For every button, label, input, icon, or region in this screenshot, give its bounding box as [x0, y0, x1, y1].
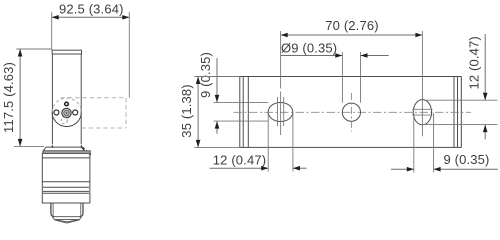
- right slot ellipse: [413, 100, 431, 125]
- dim dia9 leader: [281, 55, 342, 57]
- dim dia9 arrow left-pointing: [361, 53, 368, 58]
- base gray bar: [43, 151, 90, 153]
- left slot side line b: [283, 97, 285, 126]
- base line 5: [43, 192, 89, 194]
- dim 9 bottom line left: [391, 168, 414, 170]
- right slot centerline: [421, 100, 423, 137]
- dim 12 right line lower: [484, 125, 486, 140]
- dome upper: [52, 217, 81, 220]
- dim 9 bottom tail: [434, 168, 498, 170]
- dim 35 line: [197, 77, 199, 148]
- dim 9 left line upper: [216, 58, 218, 102]
- dim 9 left extension top: [214, 101, 269, 103]
- svg-text:117.5 (4.63): 117.5 (4.63): [1, 62, 16, 133]
- middle hole: [342, 103, 360, 121]
- left slot ellipse: [268, 103, 293, 122]
- connector inner line left: [52, 203, 54, 217]
- plate outline: [240, 77, 461, 148]
- dim 117.5 arrow up: [18, 49, 23, 57]
- device column left side: [51, 54, 53, 144]
- dim 92.5 line: [52, 16, 130, 18]
- device column right side: [80, 54, 82, 144]
- dim 70 arrow right: [415, 33, 422, 38]
- dim 70 extension left: [280, 31, 282, 89]
- hidden arm dashed right: [125, 98, 127, 128]
- dim 12 right line upper: [484, 34, 486, 100]
- flange hidden screw dashed: [61, 118, 67, 124]
- dim 70 arrow left: [281, 33, 288, 38]
- dim 70 line: [281, 34, 423, 36]
- dim 12 bottom line left: [210, 167, 269, 169]
- dim 12 bottom extension b: [292, 113, 294, 172]
- left slot centerline: [280, 92, 282, 136]
- dim 12 bottom tail: [293, 167, 307, 169]
- column base wedge right: [80, 145, 83, 148]
- dim 35 arrow up: [196, 77, 201, 85]
- dim 92.5 arrow left: [52, 15, 59, 20]
- dim 9 bottom arrow left-pointing: [434, 167, 441, 172]
- flange circle upper dashed arc: [52, 98, 81, 112]
- svg-text:9 (0.35): 9 (0.35): [198, 52, 213, 98]
- dim 117.5 extension top: [16, 48, 51, 50]
- dim 35 arrow down: [196, 140, 201, 148]
- dim dia9 arrow right-pointing: [335, 53, 342, 58]
- dome v outer: [54, 220, 79, 223]
- svg-text:35 (1.38): 35 (1.38): [179, 84, 194, 137]
- base main block: [42, 153, 90, 203]
- hidden arm dashed bottom: [81, 127, 126, 129]
- dim 9 bottom arrow right-pointing: [407, 167, 414, 172]
- dim 12 right extension top: [427, 99, 498, 101]
- column base wedge left: [51, 145, 54, 148]
- left slot side line a: [277, 97, 279, 126]
- base line 1: [42, 157, 90, 159]
- dim dia9 tail: [361, 55, 389, 57]
- dim 9 left line lower: [216, 121, 218, 134]
- dim 12 bottom extension a: [267, 113, 269, 172]
- right slot side line b: [413, 114, 433, 116]
- base flange top: [43, 147, 84, 151]
- dim 12 right arrow up: [483, 125, 488, 133]
- right slot side line a: [413, 108, 433, 110]
- svg-text:12 (0.47): 12 (0.47): [213, 152, 266, 167]
- base line 3: [43, 186, 89, 188]
- plate left cap line 1: [242, 77, 244, 148]
- base hatch marks: [83, 147, 91, 155]
- connector right side: [80, 203, 83, 217]
- svg-text:70 (2.76): 70 (2.76): [325, 18, 378, 33]
- svg-text:12 (0.47): 12 (0.47): [467, 36, 482, 89]
- connector bottom line: [53, 216, 81, 218]
- flange hub center dot: [66, 112, 68, 114]
- dim 9 left arrow down: [215, 95, 220, 103]
- svg-text:9 (0.35): 9 (0.35): [444, 152, 490, 167]
- plate right cap line 1: [453, 77, 455, 148]
- dim 92.5 extension right: [128, 12, 130, 98]
- base line 4: [43, 190, 89, 192]
- dim 9 bottom extension b: [433, 113, 435, 173]
- dim 12 right arrow down: [483, 93, 488, 101]
- flange left hole: [54, 110, 59, 115]
- dim 9 bottom extension a: [413, 113, 415, 173]
- dim 35 extension bottom: [194, 146, 240, 148]
- flange top small hole: [65, 102, 69, 106]
- plate right cap line 2: [457, 77, 459, 148]
- dim 117.5 extension bottom: [14, 145, 44, 147]
- dim 92.5 extension left: [51, 12, 53, 50]
- flange hub inner: [64, 110, 69, 115]
- dim 92.5 arrow right: [122, 15, 129, 20]
- dim 117.5 line: [19, 49, 21, 146]
- plate left cap line 2: [247, 77, 249, 148]
- dim 117.5 arrow down: [18, 139, 23, 147]
- dim 9 left extension bottom: [214, 120, 269, 122]
- dome v inner: [57, 220, 76, 222]
- svg-text:92.5 (3.64): 92.5 (3.64): [59, 2, 124, 17]
- flange circle lower solid arc: [52, 112, 81, 126]
- plate centerline: [234, 111, 472, 113]
- flange hub outer: [62, 108, 71, 117]
- dim dia9 extension a: [341, 52, 343, 103]
- connector inner line right: [80, 203, 82, 217]
- dim 12 bottom arrow right-pointing: [261, 166, 268, 171]
- dim 70 extension right: [421, 31, 423, 100]
- hidden arm dashed top: [61, 97, 127, 99]
- middle hole centerline vertical: [350, 93, 352, 132]
- device top cap: [52, 50, 81, 54]
- dim 9 left arrow up: [215, 121, 220, 129]
- connector left side: [51, 203, 54, 217]
- dim dia9 extension b: [360, 52, 362, 103]
- flange right hole: [73, 110, 78, 115]
- dim 35 extension top: [194, 76, 240, 78]
- dim 12 right extension bottom: [423, 124, 498, 126]
- svg-text:Ø9 (0.35): Ø9 (0.35): [281, 40, 337, 55]
- base line 2: [42, 181, 90, 183]
- dim 12 bottom arrow left-pointing: [293, 166, 300, 171]
